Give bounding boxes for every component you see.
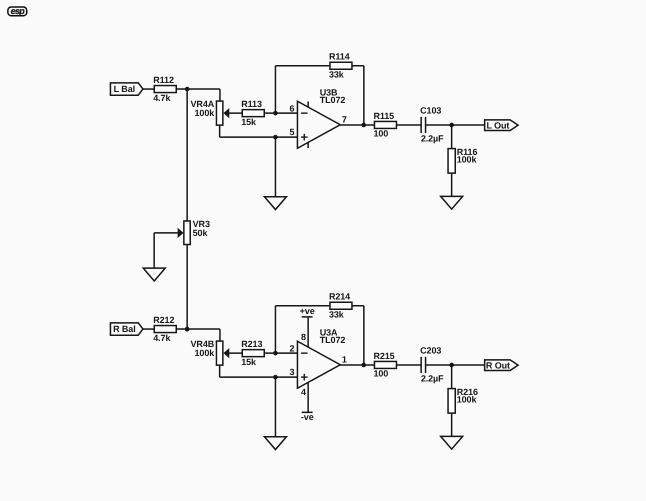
svg-text:L Out: L Out xyxy=(486,120,509,130)
svg-text:3: 3 xyxy=(290,367,295,377)
svg-text:R112: R112 xyxy=(153,75,174,85)
svg-text:4.7k: 4.7k xyxy=(153,333,171,343)
svg-text:esp: esp xyxy=(11,6,26,16)
svg-text:2.2µF: 2.2µF xyxy=(421,134,444,144)
svg-text:R215: R215 xyxy=(373,351,394,361)
svg-text:15k: 15k xyxy=(241,117,257,127)
svg-text:C203: C203 xyxy=(420,346,441,356)
svg-text:100k: 100k xyxy=(195,108,216,118)
svg-text:R Bal: R Bal xyxy=(113,324,136,334)
svg-text:+ve: +ve xyxy=(300,306,315,316)
svg-text:4.7k: 4.7k xyxy=(153,93,171,103)
svg-text:100k: 100k xyxy=(195,348,216,358)
svg-text:R213: R213 xyxy=(241,339,262,349)
svg-text:5: 5 xyxy=(290,127,295,137)
svg-text:R212: R212 xyxy=(153,315,174,325)
svg-text:R113: R113 xyxy=(241,99,262,109)
svg-text:8: 8 xyxy=(301,332,306,342)
svg-text:TL072: TL072 xyxy=(320,95,346,105)
svg-text:6: 6 xyxy=(290,104,295,114)
svg-text:R Out: R Out xyxy=(486,360,510,370)
svg-text:2: 2 xyxy=(290,344,295,354)
svg-text:100: 100 xyxy=(373,369,388,379)
svg-text:2.2µF: 2.2µF xyxy=(421,374,444,384)
svg-text:15k: 15k xyxy=(241,357,257,367)
svg-text:50k: 50k xyxy=(193,228,209,238)
svg-text:1: 1 xyxy=(342,354,347,364)
svg-text:TL072: TL072 xyxy=(320,335,346,345)
svg-text:R114: R114 xyxy=(329,52,350,62)
svg-text:100k: 100k xyxy=(457,395,478,405)
svg-text:-ve: -ve xyxy=(301,412,314,422)
svg-text:C103: C103 xyxy=(420,106,441,116)
svg-text:L Bal: L Bal xyxy=(114,84,135,94)
svg-text:33k: 33k xyxy=(329,70,345,80)
svg-text:4: 4 xyxy=(301,387,306,397)
svg-text:7: 7 xyxy=(342,114,347,124)
svg-text:R115: R115 xyxy=(373,111,394,121)
svg-text:R214: R214 xyxy=(329,292,350,302)
svg-text:100: 100 xyxy=(373,129,388,139)
svg-text:33k: 33k xyxy=(329,310,345,320)
svg-text:100k: 100k xyxy=(457,155,478,165)
